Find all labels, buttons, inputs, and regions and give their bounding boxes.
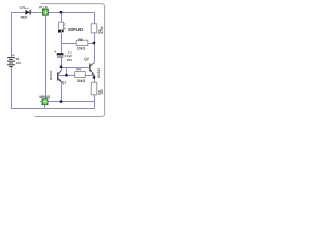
- junction node C1 bottom: [60, 66, 62, 68]
- svg-text:33kΩ: 33kΩ: [77, 79, 86, 83]
- wire ground row MINUS to R6: [48, 101, 95, 103]
- resistor R3: [91, 24, 104, 34]
- terminal MINUS: [42, 99, 48, 105]
- wire bottom rail: [11, 108, 95, 110]
- resistor R5: [76, 38, 88, 51]
- wire connector link PLUS to MINUS: [45, 15, 47, 99]
- junction node A top: [60, 11, 62, 13]
- wire node A to Q2 base: [62, 67, 90, 69]
- terminal PLUS: [42, 9, 48, 15]
- wire D2 to C1: [61, 33, 63, 54]
- wire center vertical node dot A down to D2: [61, 13, 63, 23]
- svg-text:470k: 470k: [100, 26, 104, 33]
- wire R3 to node B collector: [94, 33, 96, 63]
- transistor Q2: [84, 57, 101, 78]
- transistor Q1: [49, 70, 66, 84]
- svg-text:25V: 25V: [67, 58, 72, 62]
- LED LD1: [25, 8, 31, 15]
- svg-text:+: +: [54, 50, 56, 54]
- wire right vertical top to R3: [94, 13, 96, 24]
- svg-text:ESP-LED: ESP-LED: [68, 27, 83, 32]
- wire top rail: [11, 12, 95, 14]
- svg-text:R4: R4: [76, 67, 80, 71]
- wire left vertical from battery bottom: [11, 66, 13, 108]
- wire R5 left lead: [62, 43, 77, 45]
- junction node ground row: [60, 100, 62, 102]
- frame border of schematic sheet: [35, 4, 105, 117]
- junction node Q2 emitter: [93, 76, 95, 78]
- svg-text:BC547: BC547: [49, 70, 53, 80]
- svg-text:R5: R5: [78, 38, 82, 42]
- wire R6 to bottom rails: [94, 95, 96, 109]
- diode D2 box body: [58, 22, 66, 33]
- svg-text:LD1: LD1: [20, 6, 26, 10]
- wire Q1 base to R4 left lead: [58, 75, 74, 77]
- junction node B R5 R3 collector: [93, 42, 95, 44]
- capacitor C1: [54, 50, 72, 62]
- svg-text:Q1: Q1: [62, 80, 66, 84]
- resistor R4: [75, 67, 86, 83]
- svg-text:Q2: Q2: [84, 57, 89, 61]
- wire left vertical from battery top: [11, 12, 13, 57]
- svg-text:+: +: [12, 52, 15, 57]
- wire R5 right lead: [88, 43, 95, 45]
- svg-text:12V: 12V: [16, 61, 22, 65]
- svg-text:100: 100: [100, 89, 104, 95]
- battery B1: [7, 52, 22, 67]
- svg-text:BC547: BC547: [97, 68, 101, 78]
- wire MINUS left pin stub: [40, 101, 42, 103]
- svg-text:A: A: [64, 26, 66, 30]
- svg-text:10kΩ: 10kΩ: [77, 47, 86, 51]
- resistor R6: [91, 82, 104, 95]
- wire Q1 emitter down to ground row: [61, 81, 63, 102]
- wire C1 to Q1 collector: [61, 58, 63, 71]
- junction node R4 branch: [65, 74, 67, 76]
- wire R4 right lead: [85, 75, 94, 77]
- wire Q2 emitter to R6: [94, 75, 96, 82]
- wire R4 branch vertical: [66, 68, 68, 76]
- wire MINUS bottom stub: [44, 105, 46, 109]
- svg-text:RED: RED: [21, 15, 28, 19]
